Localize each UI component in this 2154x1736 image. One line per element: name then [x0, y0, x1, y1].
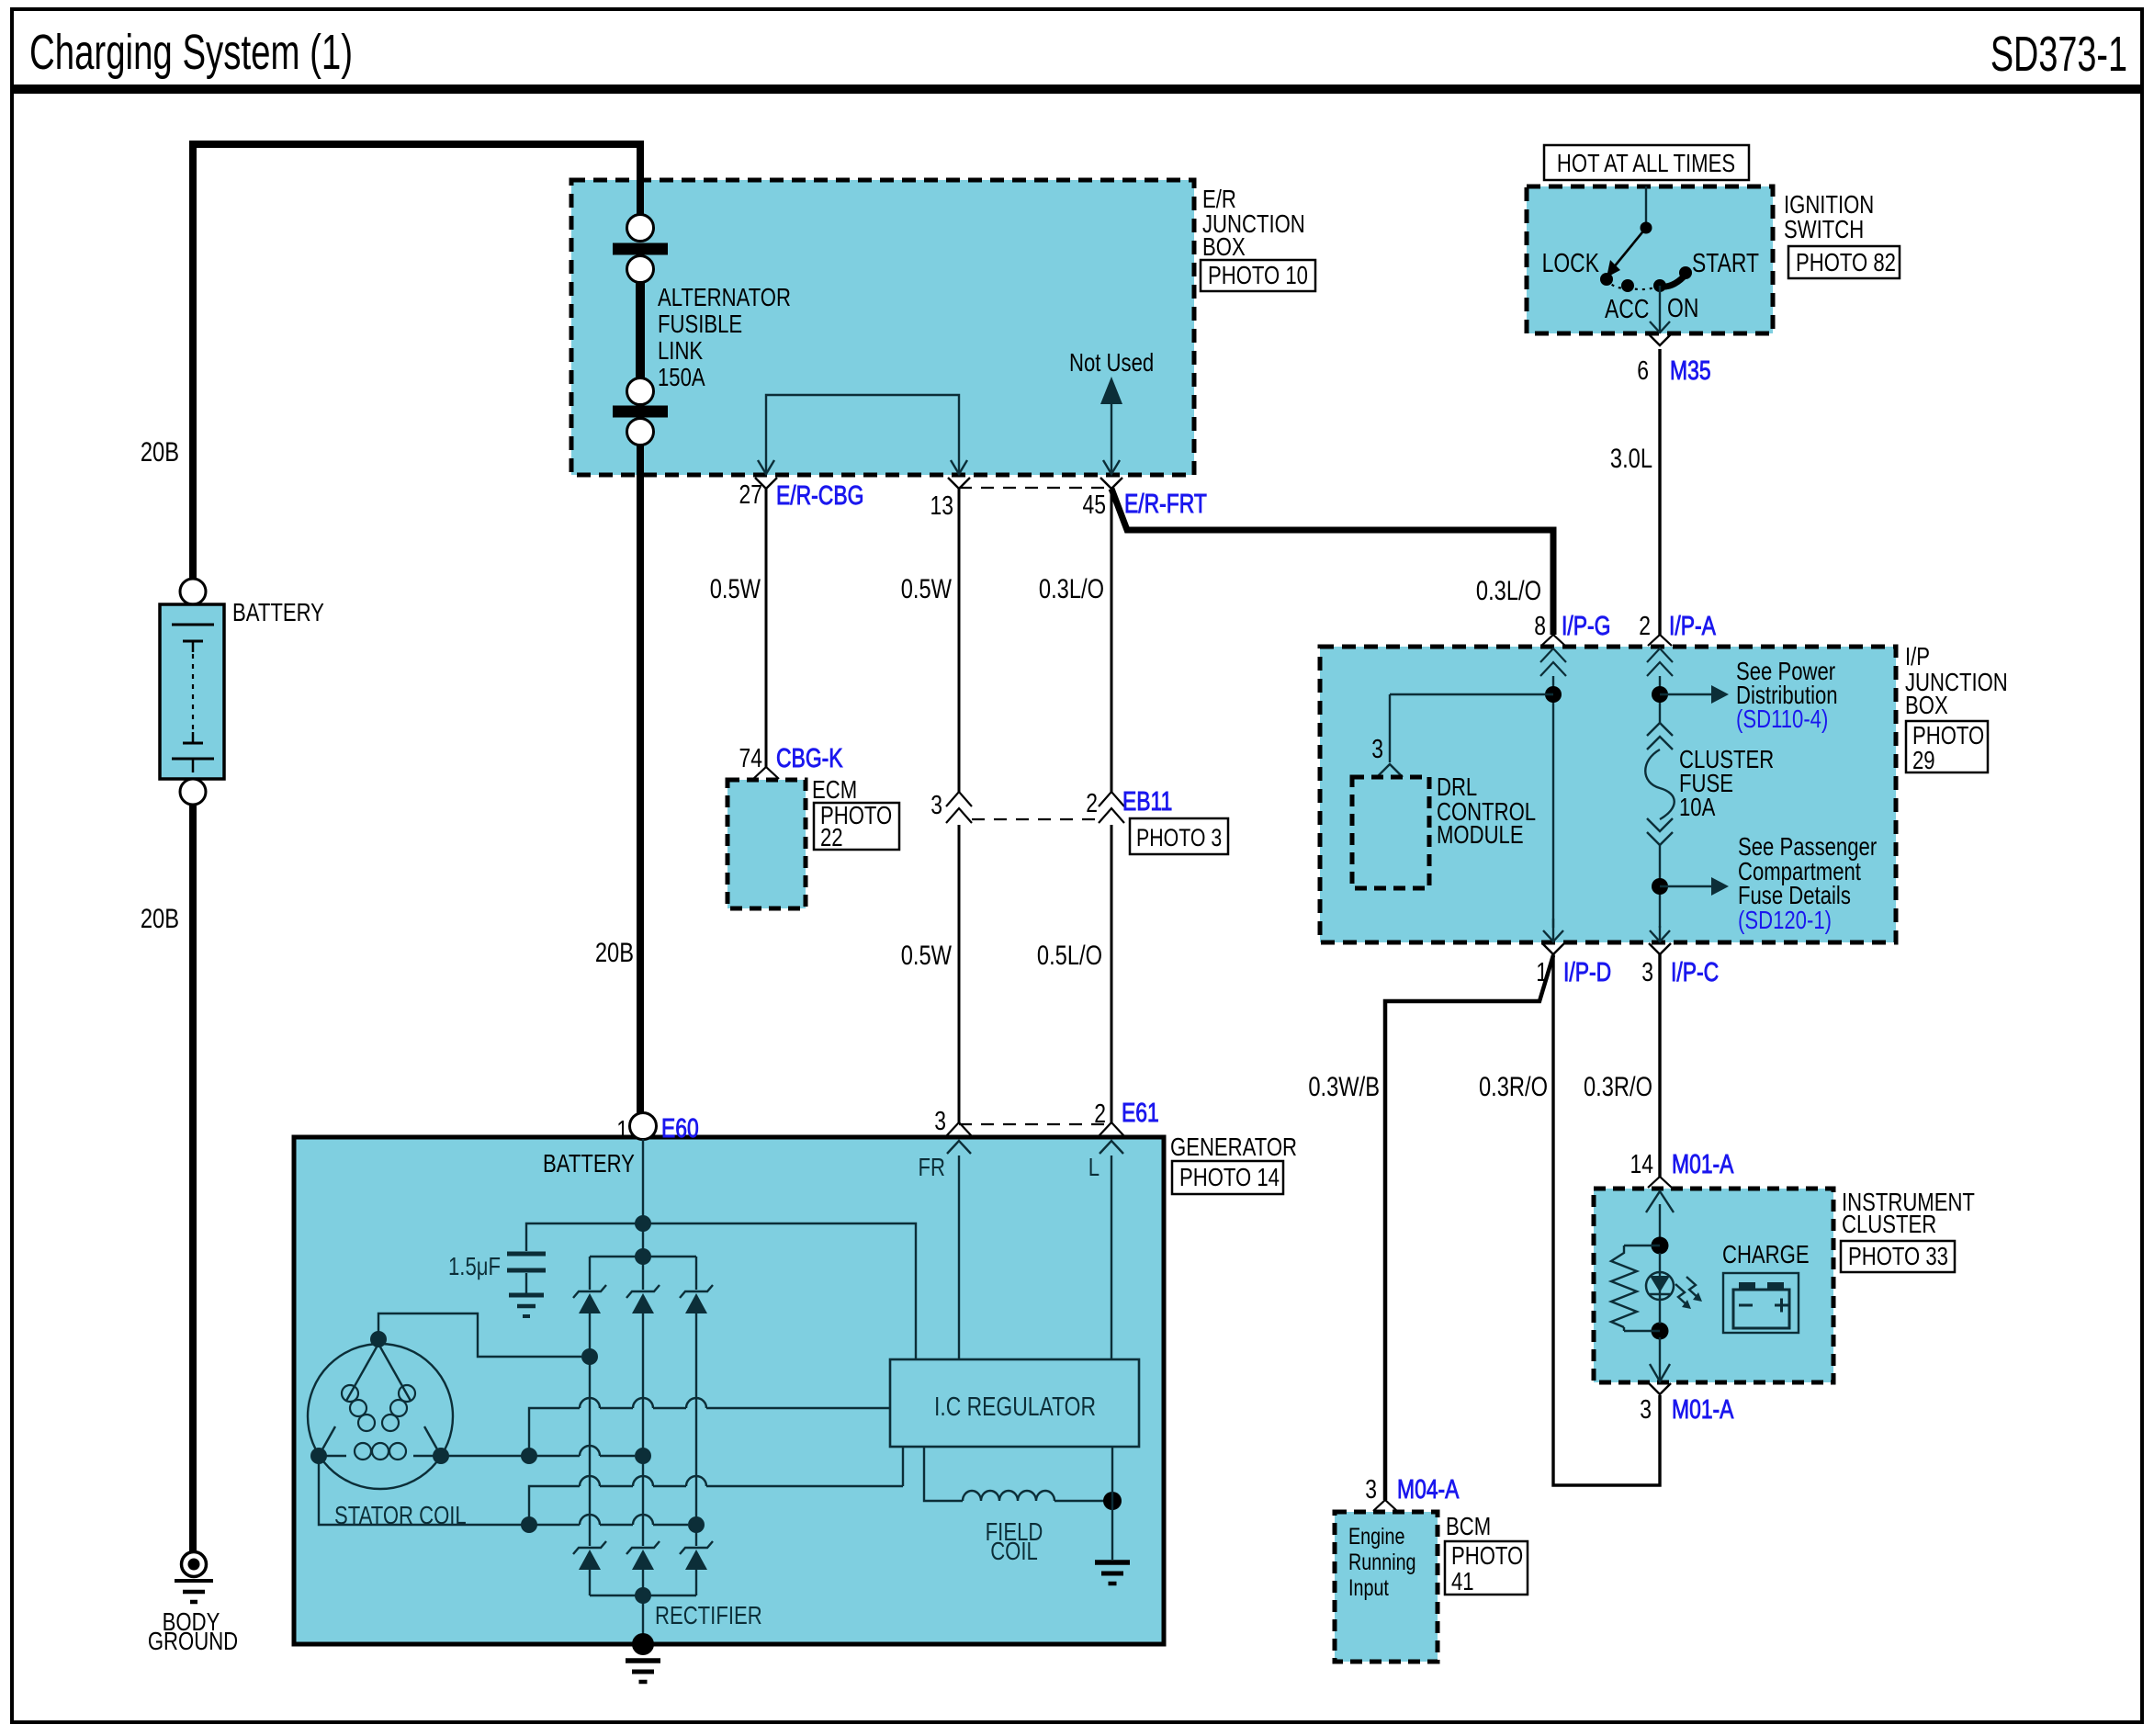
- ECM module box: [727, 780, 806, 908]
- svg-text:0.5W: 0.5W: [710, 573, 761, 603]
- svg-text:0.3W/B: 0.3W/B: [1308, 1071, 1380, 1101]
- svg-text:PHOTO: PHOTO: [1451, 1542, 1523, 1571]
- svg-text:0.3L/O: 0.3L/O: [1039, 573, 1104, 603]
- wire: 3.0L ignition to I/P-A: [1658, 349, 1661, 635]
- BCM photo ref: [1445, 1541, 1528, 1595]
- svg-text:Engine: Engine: [1348, 1524, 1404, 1550]
- body ground symbol: [182, 1552, 207, 1577]
- svg-text:150A: 150A: [658, 364, 705, 392]
- generator photo ref: [1172, 1161, 1283, 1194]
- svg-text:0.5W: 0.5W: [901, 573, 953, 603]
- wire: 0.3W/B I/P-D to BCM M04-A: [1385, 955, 1553, 1500]
- svg-text:10A: 10A: [1679, 794, 1715, 822]
- svg-text:COIL: COIL: [990, 1538, 1038, 1566]
- I/P internal wire to DRL: [1552, 676, 1554, 928]
- field coil: [924, 1447, 963, 1501]
- svg-text:0.5L/O: 0.5L/O: [1037, 940, 1102, 970]
- connector 8 I/P-G: [1541, 635, 1565, 646]
- svg-text:GROUND: GROUND: [148, 1628, 238, 1656]
- connector 3 M01-A: [1649, 1383, 1671, 1394]
- charge warning LED: [1646, 1272, 1674, 1300]
- svg-text:2: 2: [1086, 787, 1098, 817]
- svg-text:M35: M35: [1670, 355, 1711, 385]
- svg-text:E61: E61: [1122, 1097, 1159, 1127]
- svg-text:74: 74: [739, 742, 762, 772]
- connector 74 CBG-K: [753, 767, 779, 779]
- HOT AT ALL TIMES tag: [1544, 145, 1749, 180]
- E/R junction box photo ref: [1201, 260, 1315, 291]
- connector 3 FR: [946, 1122, 972, 1136]
- svg-text:START: START: [1692, 247, 1759, 277]
- svg-text:EB11: EB11: [1122, 785, 1172, 816]
- svg-text:13: 13: [930, 490, 953, 520]
- wire: battery positive feed 20B (thick): [193, 144, 640, 579]
- svg-text:LOCK: LOCK: [1542, 247, 1600, 277]
- svg-text:BOX: BOX: [1202, 233, 1246, 262]
- I/P internal wire I/P-A to cluster fuse: [1659, 676, 1661, 723]
- svg-text:M04-A: M04-A: [1397, 1473, 1460, 1504]
- IC regulator: [890, 1359, 1139, 1447]
- see passenger compartment arrow: [1660, 885, 1713, 888]
- wire: 0.5W from 13 to generator FR: [958, 489, 961, 792]
- alternator fusible link 150A (fuse in E/R box): [627, 215, 654, 242]
- svg-text:I/P-D: I/P-D: [1563, 956, 1611, 986]
- svg-text:BCM: BCM: [1446, 1513, 1491, 1541]
- stator phase A wire: [378, 1313, 581, 1357]
- svg-text:CBG-K: CBG-K: [776, 742, 843, 772]
- svg-text:E60: E60: [661, 1112, 699, 1143]
- cluster internal wire: [1646, 1191, 1674, 1212]
- svg-text:14: 14: [1630, 1148, 1653, 1178]
- svg-text:41: 41: [1451, 1568, 1474, 1596]
- wire: E/R-FRT thick feed to I/P-G: [1111, 489, 1553, 635]
- svg-text:3: 3: [1640, 1393, 1652, 1424]
- svg-text:CHARGE: CHARGE: [1722, 1241, 1810, 1269]
- svg-text:3: 3: [930, 789, 942, 819]
- connector 6 M35: [1649, 334, 1671, 345]
- svg-text:0.5W: 0.5W: [901, 940, 953, 970]
- svg-text:BATTERY: BATTERY: [543, 1150, 635, 1178]
- I/P junction box: [1320, 647, 1896, 942]
- svg-text:ACC: ACC: [1605, 293, 1649, 323]
- svg-text:HOT AT ALL TIMES: HOT AT ALL TIMES: [1557, 150, 1735, 178]
- svg-text:8: 8: [1534, 610, 1546, 640]
- connector 2 E61 (L): [1099, 1122, 1124, 1136]
- connector 27 E/R-CBG: [755, 478, 777, 489]
- svg-text:20B: 20B: [595, 937, 634, 967]
- svg-text:CLUSTER: CLUSTER: [1842, 1211, 1936, 1239]
- rectifier top diodes: [573, 1285, 606, 1298]
- svg-text:FUSIBLE: FUSIBLE: [658, 310, 742, 339]
- svg-text:29: 29: [1912, 747, 1935, 775]
- stator phase B wire: [441, 1455, 580, 1457]
- wire: 0.5L/O from EB11 to generator L: [1111, 825, 1113, 1122]
- svg-text:FR: FR: [919, 1154, 945, 1182]
- svg-text:3: 3: [934, 1105, 946, 1135]
- svg-text:ALTERNATOR: ALTERNATOR: [658, 284, 791, 312]
- capacitor 1.5uF: [526, 1223, 643, 1251]
- in-line connector 3 (EB11 pair): [946, 792, 972, 806]
- see power distribution arrow: [1660, 693, 1713, 696]
- svg-text:I/P-C: I/P-C: [1671, 956, 1719, 986]
- svg-text:22: 22: [820, 824, 843, 852]
- svg-text:Not Used: Not Used: [1069, 349, 1154, 378]
- hidden link dashed 13-45: [959, 487, 1111, 489]
- I/P junction box photo ref: [1906, 721, 1988, 772]
- svg-text:RECTIFIER: RECTIFIER: [655, 1602, 762, 1630]
- connector 3 I/P-C: [1649, 943, 1671, 954]
- svg-text:ON: ON: [1667, 292, 1698, 322]
- svg-text:3: 3: [1371, 733, 1383, 763]
- sense wire phase C to IC regulator: [529, 1486, 580, 1525]
- rectifier bottom diodes: [573, 1541, 606, 1554]
- ignition switch internals: [1645, 186, 1647, 223]
- E/R junction box: [571, 180, 1194, 475]
- svg-text:Input: Input: [1348, 1575, 1390, 1601]
- svg-text:0.3L/O: 0.3L/O: [1476, 575, 1541, 605]
- cluster fuse output wire: [1659, 845, 1661, 928]
- svg-text:PHOTO 3: PHOTO 3: [1136, 825, 1222, 852]
- BCM box: [1335, 1512, 1438, 1662]
- svg-text:27: 27: [739, 479, 762, 509]
- instrument cluster photo ref: [1841, 1241, 1955, 1272]
- svg-text:LINK: LINK: [658, 337, 703, 366]
- connector 1 E60 (B+): [630, 1113, 657, 1140]
- connector 3 DRL: [1377, 764, 1403, 777]
- svg-text:(SD110-4): (SD110-4): [1736, 705, 1828, 734]
- wire: 0.3R/O I/P-C to cluster 14 M01-A: [1658, 954, 1661, 1177]
- wire: 0.5W from E/R-CBG 27 to ECM CBG-K: [765, 489, 768, 768]
- generator internal B+ wire: [642, 1139, 644, 1253]
- svg-text:GENERATOR: GENERATOR: [1170, 1133, 1297, 1162]
- svg-text:SWITCH: SWITCH: [1784, 216, 1864, 244]
- svg-text:2: 2: [1639, 610, 1651, 640]
- FR wire into IC regulator: [958, 1155, 960, 1359]
- title separator bar: [12, 85, 2142, 94]
- svg-text:6: 6: [1637, 355, 1649, 385]
- LED light arrows: [1675, 1284, 1689, 1307]
- svg-text:E/R-CBG: E/R-CBG: [776, 479, 863, 510]
- svg-text:Running: Running: [1348, 1550, 1416, 1575]
- EB11 photo ref: [1130, 818, 1228, 854]
- wire: battery negative to body ground (thick): [189, 805, 197, 1551]
- svg-text:1.5μF: 1.5μF: [448, 1253, 501, 1281]
- svg-text:I/P: I/P: [1905, 643, 1930, 671]
- svg-text:BATTERY: BATTERY: [232, 599, 324, 627]
- wire: fusible link to generator B+ (thick 20B): [637, 445, 644, 1114]
- svg-text:PHOTO 10: PHOTO 10: [1208, 262, 1308, 290]
- svg-text:MODULE: MODULE: [1437, 821, 1524, 850]
- svg-text:I.C REGULATOR: I.C REGULATOR: [934, 1391, 1096, 1421]
- resistor (lamp shunt): [1624, 1245, 1660, 1246]
- cluster fuse 10A: [1647, 723, 1673, 736]
- rectifier bottom rail and ground: [590, 1595, 696, 1596]
- hidden link dashed 3-2 generator: [959, 1123, 1111, 1125]
- in-line connector 2 EB11: [1099, 792, 1124, 806]
- svg-text:Charging System (1): Charging System (1): [29, 25, 353, 80]
- wire to IC regulator from B+: [643, 1223, 916, 1359]
- connector 45 E/R-FRT: [1100, 478, 1122, 489]
- svg-text:0.3R/O: 0.3R/O: [1479, 1071, 1548, 1101]
- stator coil: [308, 1344, 453, 1489]
- svg-text:0.3R/O: 0.3R/O: [1584, 1071, 1652, 1101]
- svg-text:PHOTO 82: PHOTO 82: [1796, 249, 1896, 277]
- wire: 0.3R/O I/P-D loop to cluster 3 M01-A: [1553, 954, 1660, 1485]
- connector 2 I/P-A: [1648, 635, 1672, 646]
- cluster output wire: [1659, 1337, 1661, 1381]
- L wire into IC regulator: [1111, 1155, 1112, 1359]
- rectifier top rail: [635, 1248, 651, 1265]
- svg-text:(SD120-1): (SD120-1): [1738, 907, 1832, 935]
- svg-text:3: 3: [1365, 1473, 1377, 1504]
- svg-text:M01-A: M01-A: [1672, 1393, 1734, 1424]
- connector 1 I/P-D: [1542, 943, 1564, 954]
- svg-text:1: 1: [616, 1114, 628, 1144]
- stator phase C wire: [319, 1456, 580, 1525]
- battery: [180, 579, 206, 604]
- svg-text:BOX: BOX: [1905, 692, 1948, 720]
- DRL control module box: [1352, 777, 1429, 888]
- ignition output wire: [1659, 286, 1661, 333]
- svg-text:I/P-A: I/P-A: [1669, 610, 1716, 640]
- svg-text:20B: 20B: [141, 436, 179, 467]
- svg-text:L: L: [1088, 1154, 1100, 1182]
- svg-text:PHOTO 33: PHOTO 33: [1848, 1243, 1948, 1271]
- svg-text:M01-A: M01-A: [1672, 1148, 1734, 1178]
- hidden link dashed 3-2: [972, 818, 1099, 820]
- svg-text:PHOTO 14: PHOTO 14: [1179, 1164, 1280, 1192]
- instrument cluster box: [1594, 1189, 1833, 1382]
- svg-text:I/P-G: I/P-G: [1562, 610, 1610, 640]
- ECM photo ref: [814, 803, 899, 850]
- E/R internal link wire 27-13: [766, 395, 959, 475]
- ignition switch photo ref: [1788, 246, 1900, 278]
- svg-text:20B: 20B: [141, 903, 179, 933]
- charge battery icon: [1723, 1273, 1799, 1333]
- svg-text:3.0L: 3.0L: [1610, 443, 1652, 473]
- svg-text:SD373-1: SD373-1: [1990, 26, 2127, 81]
- ignition switch box: [1527, 186, 1773, 333]
- wire: 0.3L/O from 45 to EB11 2: [1111, 489, 1113, 792]
- connector 14 M01-A: [1648, 1177, 1672, 1188]
- sense wire phase B to IC regulator: [529, 1408, 580, 1456]
- connector 3 M04-A: [1373, 1500, 1397, 1511]
- svg-text:45: 45: [1083, 489, 1106, 519]
- svg-text:ECM: ECM: [812, 776, 857, 805]
- generator box: [294, 1137, 1164, 1644]
- svg-text:3: 3: [1641, 956, 1653, 986]
- connector 13: [948, 478, 970, 489]
- svg-text:E/R-FRT: E/R-FRT: [1124, 488, 1207, 518]
